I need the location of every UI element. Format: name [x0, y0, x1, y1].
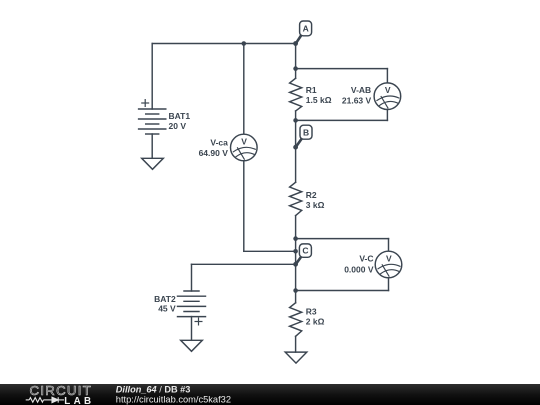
wire V-C top horizontal — [296, 238, 389, 240]
voltmeter V-AB — [374, 83, 401, 110]
svg-text:21.63 V: 21.63 V — [342, 95, 372, 105]
ground R3 — [285, 352, 307, 363]
wire BAT2 top lead — [191, 264, 193, 291]
wire V-ca horizontal to node C — [244, 250, 296, 252]
junction dot V-C tap — [293, 236, 298, 241]
node A — [296, 21, 311, 43]
svg-text:BAT1: BAT1 — [169, 111, 191, 121]
junction dot node C — [293, 262, 298, 267]
wire R1 top lead — [295, 69, 297, 79]
resistor R3 — [290, 303, 302, 337]
junction dot node B — [293, 145, 298, 150]
wire BAT2 horizontal to node C — [192, 263, 296, 265]
wire R1 bottom lead — [295, 111, 297, 120]
svg-text:R1: R1 — [306, 85, 317, 95]
svg-text:1.5 kΩ: 1.5 kΩ — [306, 95, 332, 105]
svg-text:2 kΩ: 2 kΩ — [306, 317, 325, 327]
junction dot R1 bottom / V-AB return — [293, 118, 298, 123]
wire V-C right vertical bottom — [388, 278, 390, 291]
svg-text:BAT2: BAT2 — [154, 294, 176, 304]
wire BAT2 bottom lead — [191, 317, 193, 341]
resistor R1 — [290, 78, 302, 111]
svg-text:3 kΩ: 3 kΩ — [306, 200, 325, 210]
label BAT1 value — [169, 111, 191, 131]
wire V-AB right vertical bottom — [386, 110, 388, 121]
battery BAT1 — [139, 100, 166, 134]
battery BAT2 — [178, 291, 206, 325]
node C — [296, 244, 311, 264]
label V-ca value 64.90 V — [199, 137, 229, 158]
svg-text:V-AB: V-AB — [351, 85, 371, 95]
svg-text:C: C — [302, 246, 308, 256]
wire V-C bottom horizontal — [296, 290, 389, 292]
junction dot R3 top / V-C return — [293, 288, 298, 293]
wire V-AB top horizontal — [296, 68, 388, 70]
ground BAT1 — [142, 158, 164, 169]
svg-text:V-C: V-C — [359, 254, 373, 264]
wire node A down to R1 junction — [295, 44, 297, 69]
svg-text:LAB: LAB — [64, 396, 94, 405]
logo resistor-diode symbol — [26, 397, 64, 402]
voltmeter V-ca — [231, 134, 258, 161]
svg-text:http://circuitlab.com/c5kaf32: http://circuitlab.com/c5kaf32 — [116, 395, 231, 405]
wire R3 bottom lead — [295, 336, 297, 352]
wire main vertical B segment — [295, 120, 297, 182]
svg-text:R3: R3 — [306, 307, 317, 317]
junction dot V-ca tap on top wire — [242, 41, 247, 46]
svg-text:B: B — [303, 127, 309, 137]
label R3 value 2 kOhm — [306, 307, 325, 327]
label R1 value 1.5 kOhm — [306, 85, 332, 105]
wire main vertical C segment — [295, 239, 297, 291]
wire V-AB right vertical top — [386, 69, 388, 83]
wire top horizontal from BAT1 to node A junction — [152, 43, 295, 45]
footer title Dillon_64 / DB #3 — [116, 384, 191, 394]
svg-text:0.000 V: 0.000 V — [344, 264, 374, 274]
logo CIRCUIT text — [30, 383, 93, 398]
svg-text:V: V — [386, 253, 392, 263]
svg-text:Dillon_64 / DB #3: Dillon_64 / DB #3 — [116, 384, 191, 394]
wire V-ca bottom lead down to C level — [243, 161, 245, 252]
svg-text:64.90 V: 64.90 V — [199, 148, 229, 158]
label BAT2 value — [154, 294, 176, 314]
svg-text:V-ca: V-ca — [210, 137, 228, 147]
wire R3 top lead — [295, 291, 297, 303]
svg-text:V: V — [385, 85, 391, 95]
logo LAB text — [64, 396, 94, 405]
junction dot V-ca at node C wire — [293, 249, 298, 254]
label V-AB value 21.63 V — [342, 85, 372, 105]
wire V-ca top lead — [243, 44, 245, 135]
svg-text:R2: R2 — [306, 190, 317, 200]
wire R2 bottom lead — [295, 216, 297, 239]
junction dot R1 top / V-AB tap — [293, 66, 298, 71]
resistor R2 — [290, 182, 302, 215]
label V-C value 0.000 V — [344, 254, 374, 275]
wire V-AB bottom horizontal — [296, 119, 388, 121]
footer url — [116, 395, 231, 405]
wire BAT1 bottom lead — [151, 134, 153, 158]
node B — [296, 125, 312, 146]
label R2 value 3 kOhm — [306, 190, 325, 210]
footer bar — [0, 384, 540, 405]
wire BAT1 top lead — [151, 44, 153, 110]
svg-text:45 V: 45 V — [158, 304, 176, 314]
svg-text:20 V: 20 V — [169, 121, 187, 131]
voltmeter V-C — [375, 251, 402, 278]
svg-text:A: A — [303, 24, 309, 34]
wire V-C right vertical top — [388, 239, 390, 252]
junction dot node A — [293, 41, 298, 46]
svg-text:V: V — [241, 136, 247, 146]
ground BAT2 — [181, 340, 203, 351]
